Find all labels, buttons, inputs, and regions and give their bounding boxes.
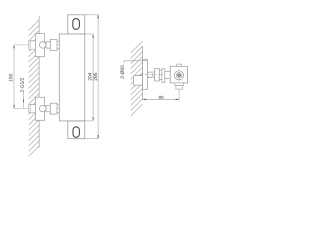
bottom mounting plate xyxy=(68,121,85,139)
label 2-Ø65 xyxy=(120,65,124,78)
upper union nut xyxy=(50,40,57,51)
wall hatching (front view) xyxy=(29,20,39,157)
upper in-wall elbow xyxy=(29,41,36,49)
label 2-G1/2 xyxy=(20,78,24,92)
knob outer circle xyxy=(174,71,183,80)
dimension text 89 xyxy=(159,96,164,99)
lower union nut xyxy=(50,103,57,114)
top button xyxy=(177,64,182,66)
upper ball joint xyxy=(39,42,46,49)
top mounting plate xyxy=(68,15,85,34)
dimension text 295 xyxy=(94,73,97,81)
centerline upper inlet xyxy=(14,44,60,46)
dimension text 150 xyxy=(9,74,12,82)
side connector cylinder xyxy=(153,71,155,73)
upper nut-to-body stub xyxy=(57,40,59,42)
upper escutcheon plate xyxy=(35,34,44,57)
knob knurl ticks xyxy=(175,71,184,80)
wall line (side view) xyxy=(142,46,144,99)
lower escutcheon plate xyxy=(35,97,44,120)
knob center xyxy=(178,74,180,76)
top slot xyxy=(73,19,80,30)
side flange disc xyxy=(162,69,165,83)
side in-wall elbow xyxy=(134,76,143,86)
dimension text 204 xyxy=(88,73,91,81)
dimension 89 line xyxy=(143,98,180,100)
side union nut xyxy=(155,69,160,81)
upper connector cylinder xyxy=(46,42,50,48)
dimension 150 line xyxy=(13,45,15,109)
side cylinder 2 xyxy=(159,70,162,79)
leader 2-G1/2 xyxy=(23,93,25,108)
knob vertical centerline xyxy=(178,69,180,81)
dash-dot centerline xyxy=(140,74,165,76)
wall line (front view) xyxy=(38,16,40,148)
wall hatching (side view) xyxy=(131,41,143,116)
side ball joint xyxy=(147,72,153,78)
dimension 204 line xyxy=(92,34,94,121)
centerline lower inlet xyxy=(14,108,60,110)
outlet extension line xyxy=(178,89,180,101)
lower nut-to-body stub xyxy=(57,104,59,106)
outlet step 2 xyxy=(176,86,183,90)
bottom slot xyxy=(73,127,79,138)
extension lines right xyxy=(85,15,98,139)
side inlet stub xyxy=(165,71,171,73)
lower in-wall elbow xyxy=(29,104,36,112)
leader 2-Ø65 xyxy=(124,61,147,63)
lower ball joint xyxy=(39,105,46,112)
side escutcheon (edge view) xyxy=(143,60,148,90)
knob middle circle xyxy=(176,73,181,78)
outlet step 1 xyxy=(175,83,184,86)
valve body bar xyxy=(59,34,85,121)
side valve body xyxy=(170,66,187,83)
dimension 295 line xyxy=(97,15,99,139)
lower connector cylinder xyxy=(46,105,50,111)
